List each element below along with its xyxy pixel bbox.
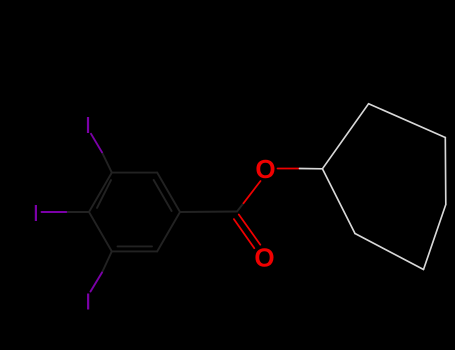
wire gray half of top I bond bbox=[102, 152, 112, 172]
wire ring edge V5-V6 bbox=[355, 234, 424, 270]
wire gray half of bottom I bond bbox=[102, 251, 112, 272]
wire inner double bond TR-R bbox=[154, 180, 172, 211]
benzene ring (triiodophenyl) bbox=[66, 152, 243, 272]
wire purple half of bottom I bond bbox=[91, 273, 103, 292]
svg-text:I: I bbox=[33, 200, 40, 226]
wire ring edge TL-TR bbox=[112, 172, 157, 174]
wire red bond ester O to right bbox=[278, 168, 300, 170]
iodine bonds purple halves bbox=[42, 134, 103, 292]
wire purple half of top I bond bbox=[91, 134, 102, 153]
wire inner double bond TL-L bbox=[97, 180, 111, 208]
ester group red bonds bbox=[234, 169, 300, 249]
wire ring edge L-TL bbox=[89, 173, 112, 212]
wire inner double bond BL-BR bbox=[118, 245, 153, 247]
wire ring edge BL-L bbox=[89, 212, 112, 251]
wire ring edge V6-V1 bbox=[322, 169, 355, 234]
svg-text:O: O bbox=[255, 154, 275, 184]
wire red part of C-O ester bond bbox=[244, 181, 261, 203]
wire bond ring to carbonyl C bbox=[180, 211, 237, 214]
wire ring edge V1-V2 bbox=[322, 104, 368, 169]
wire ring edge R-BR bbox=[157, 212, 180, 251]
wire ring edge BR-BL bbox=[112, 250, 157, 252]
wire C=O double bond main line bbox=[239, 215, 260, 245]
wire white half of O-cyclohexyl bond bbox=[300, 168, 323, 170]
wire C=O double bond second line bbox=[234, 219, 254, 248]
wire gray half of middle I bond bbox=[66, 211, 89, 213]
wire ring edge V2-V3 bbox=[369, 104, 446, 138]
wire ring edge TR-R bbox=[157, 173, 180, 212]
wire ring edge V4-V5 bbox=[424, 205, 446, 270]
wire gray stub of C-O ester bond bbox=[237, 203, 244, 211]
svg-text:I: I bbox=[85, 112, 92, 138]
svg-text:I: I bbox=[85, 289, 92, 315]
wire purple half of middle I bond bbox=[42, 211, 67, 213]
wire ring edge V3-V4 bbox=[444, 138, 447, 205]
cyclohexyl ring (white) bbox=[300, 104, 446, 270]
svg-text:O: O bbox=[254, 242, 274, 272]
